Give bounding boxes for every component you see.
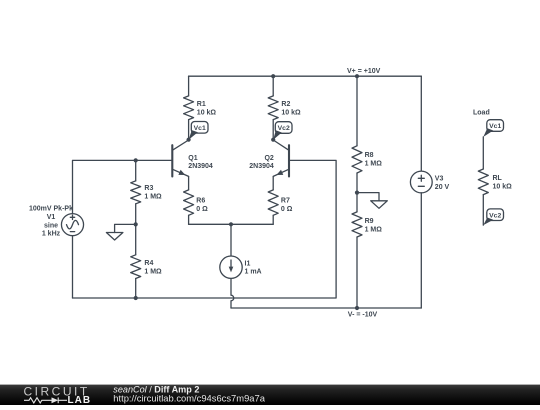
svg-text:Q2: Q2 [264,155,273,162]
node junction R8 / R9 / ground [355,191,359,195]
svg-text:Vc2: Vc2 [278,125,290,132]
wire I1 top [230,224,232,256]
wire V+ rail [189,75,422,77]
svg-text:R9: R9 [365,218,374,225]
svg-text:10 kΩ: 10 kΩ [197,110,217,117]
resistor R9 [352,212,362,237]
wire R2 bottom to Q2 collector [272,120,274,140]
wire I1 bottom with hop [231,278,234,308]
wire V1 bottom [72,236,74,298]
node junction emitter rail / I1 [229,222,233,226]
wire R1 bottom to Q1 collector [188,120,190,140]
wire R3 top [135,160,137,181]
wire V- rail [231,307,421,309]
node Vc1 terminal [187,138,191,142]
voltage source V1 [61,214,83,236]
wire V3 top [420,76,422,171]
node flag Vc1 (Q1 collector) [191,122,208,134]
svg-text:20 V: 20 V [435,184,450,191]
resistor R6 [184,190,194,215]
svg-text:100mV Pk-Pk: 100mV Pk-Pk [29,206,73,213]
svg-text:V1: V1 [47,214,56,221]
svg-text:R4: R4 [144,260,153,267]
resistor R7 [268,190,278,215]
wire R8 top [356,76,358,146]
node junction rail / R4 [134,296,138,300]
svg-text:2N3904: 2N3904 [249,163,274,170]
svg-text:2N3904: 2N3904 [188,163,213,170]
wire V1 to Q1 base [73,160,173,213]
node junction R3 / R4 / ground [134,222,138,226]
svg-text:Load: Load [473,109,490,116]
node junction V+ / R8 [355,74,359,78]
resistor R3 [131,181,141,204]
wire Q2 base loop [73,160,337,298]
svg-text:LAB: LAB [68,395,92,405]
wire R6 bottom [188,215,190,224]
wire V3 bottom [420,193,422,308]
wire R4 top [135,224,137,254]
wire load top [482,137,484,169]
svg-text:R6: R6 [196,198,205,205]
wire R7 bottom [272,215,274,224]
svg-text:1 mA: 1 mA [245,269,262,276]
wire R9 bottom [356,237,358,308]
svg-text:Q1: Q1 [188,155,197,162]
svg-text:R7: R7 [281,198,290,205]
resistor RL [478,169,488,195]
resistor R1 [184,96,194,120]
ground (left) [106,224,135,240]
svg-text:sine: sine [44,222,58,229]
node junction V+ / R2 [271,74,275,78]
logo resistor squiggle and diode [24,397,67,403]
node junction V- / R9 [355,306,359,310]
svg-text:0 Ω: 0 Ω [196,206,208,213]
svg-text:http://circuitlab.com/c94s6cs7: http://circuitlab.com/c94s6cs7m9a7a [113,393,265,404]
svg-text:1 MΩ: 1 MΩ [365,161,383,168]
svg-text:1 MΩ: 1 MΩ [365,226,383,233]
svg-text:0 Ω: 0 Ω [281,206,293,213]
svg-text:I1: I1 [245,261,251,268]
wire Q1 emitter to R6 [188,177,190,190]
svg-text:10 kΩ: 10 kΩ [493,184,513,191]
node flag Vc2 (load) [487,209,504,221]
wire R4 bottom [135,279,137,299]
svg-text:Vc2: Vc2 [489,212,501,219]
svg-text:R8: R8 [365,152,374,159]
wire emitter rail [189,223,274,225]
svg-text:V3: V3 [435,176,444,183]
svg-text:V+ = +10V: V+ = +10V [347,68,381,75]
wire Q2 emitter to R7 [272,177,274,190]
wire R8 bottom [356,173,358,193]
svg-text:1 MΩ: 1 MΩ [144,268,162,275]
svg-text:RL: RL [493,175,503,182]
svg-text:V- = -10V: V- = -10V [348,312,378,319]
ground (right) [357,193,387,209]
node flag Vc1 (load) [487,120,504,132]
wire R9 top [356,193,358,212]
node junction base / R3 [134,158,138,162]
svg-text:Vc1: Vc1 [194,125,206,132]
resistor R4 [131,255,141,279]
resistor R8 [352,146,362,173]
svg-text:Vc1: Vc1 [489,123,501,130]
wire R3 bottom [135,204,137,225]
transistor Q2 [273,140,289,177]
wire load bottom [482,195,484,226]
current source I1 [220,256,242,278]
wire R2 top [272,76,274,96]
transistor Q1 [172,140,188,177]
node flag Vc2 (Q2 collector) [275,122,292,134]
svg-text:R1: R1 [197,101,206,108]
node Vc2 terminal [271,138,275,142]
svg-text:1 kHz: 1 kHz [42,230,61,237]
voltage source V3 [410,171,432,193]
svg-text:10 kΩ: 10 kΩ [281,110,301,117]
svg-text:R3: R3 [144,185,153,192]
wire R1 top [188,76,190,96]
svg-text:1 MΩ: 1 MΩ [144,194,162,201]
resistor R2 [268,96,278,120]
svg-text:R2: R2 [281,101,290,108]
